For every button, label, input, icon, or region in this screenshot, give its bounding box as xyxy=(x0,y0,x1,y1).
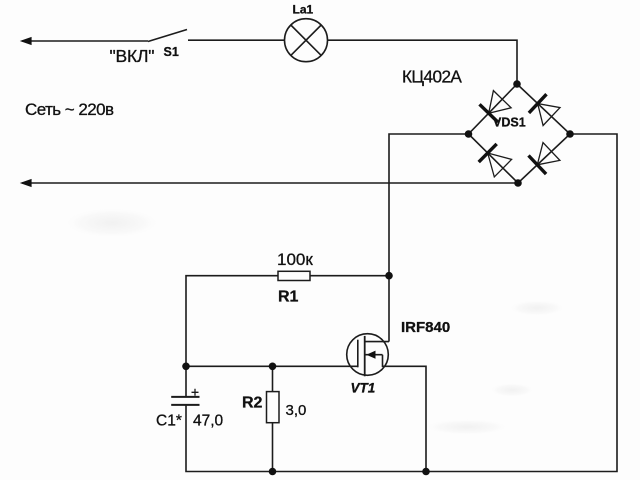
svg-text:C1*: C1* xyxy=(156,413,182,430)
svg-text:47,0: 47,0 xyxy=(193,413,224,430)
svg-text:3,0: 3,0 xyxy=(286,402,307,419)
svg-text:R2: R2 xyxy=(242,395,263,412)
svg-text:La1: La1 xyxy=(293,3,314,17)
svg-text:100к: 100к xyxy=(277,250,313,269)
svg-text:VDS1: VDS1 xyxy=(493,116,526,130)
svg-text:IRF840: IRF840 xyxy=(401,319,450,336)
svg-text:Сеть ~ 220в: Сеть ~ 220в xyxy=(25,100,114,119)
svg-text:"ВКЛ": "ВКЛ" xyxy=(110,46,155,66)
svg-text:КЦ402А: КЦ402А xyxy=(402,67,462,87)
svg-text:S1: S1 xyxy=(164,45,179,59)
svg-text:R1: R1 xyxy=(278,289,299,306)
svg-text:VT1: VT1 xyxy=(351,381,376,396)
